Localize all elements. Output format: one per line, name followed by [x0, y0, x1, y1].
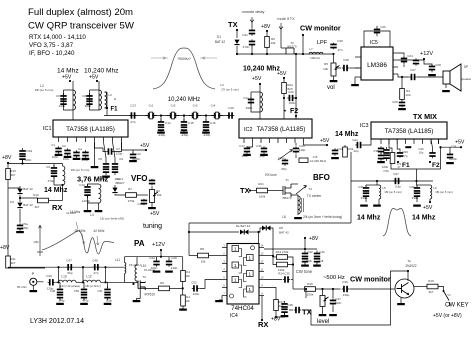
svg-text:BAT 42: BAT 42	[215, 40, 226, 44]
svg-text:14 Mhz: 14 Mhz	[57, 68, 79, 75]
wire feedback loop	[364, 31, 390, 47]
ground C32	[301, 265, 309, 267]
RX response plot axis	[37, 225, 43, 256]
junction rail	[304, 248, 306, 250]
svg-text:100k: 100k	[307, 293, 314, 297]
IC4 right pin 12	[259, 263, 264, 265]
TX bandpass response curve	[383, 208, 411, 236]
inductor L12	[83, 280, 100, 282]
svg-text:470n: 470n	[243, 45, 250, 49]
junction D2 D3	[19, 197, 21, 199]
wire C51 down	[107, 282, 109, 288]
svg-text:mute if TX: mute if TX	[277, 17, 295, 21]
svg-text:CW monitor: CW monitor	[350, 275, 391, 284]
wire varactor to R7	[115, 194, 126, 195]
node F2 right	[429, 161, 431, 163]
74HC04 inverter gates	[232, 246, 239, 252]
svg-text:C30: C30	[383, 169, 389, 173]
svg-text:C163: C163	[25, 149, 33, 153]
svg-text:TX: TX	[302, 308, 312, 317]
junction level	[321, 288, 323, 290]
svg-text:C1: C1	[51, 143, 55, 147]
svg-text:C50: C50	[74, 289, 80, 293]
wire rail 268	[8, 267, 45, 269]
svg-text:C1a: C1a	[243, 96, 249, 100]
wire tank gnd2	[98, 203, 100, 210]
resistor R16b 4k7	[427, 284, 438, 289]
unmute delay arrow	[250, 17, 254, 22]
svg-text:CW QRP transceiver 5W: CW QRP transceiver 5W	[28, 21, 135, 32]
op-amp IC1 TA7358 (LA1185)	[53, 120, 128, 137]
wire Ca1 to IC3	[363, 139, 371, 145]
svg-text:22p: 22p	[353, 149, 358, 153]
wire to R15	[273, 256, 277, 258]
wire L1 top	[62, 164, 64, 167]
svg-text:+5V: +5V	[140, 143, 150, 149]
svg-text:F1: F1	[402, 162, 410, 169]
capacitor C6a 220p	[60, 93, 66, 107]
svg-text:C24: C24	[407, 54, 413, 58]
node +5V IC1	[145, 149, 147, 151]
diode pair D5 BAT 42	[262, 226, 271, 231]
svg-text:vol: vol	[327, 85, 335, 91]
wire pin to C24	[398, 53, 404, 56]
IC4 left pin 3	[222, 263, 227, 265]
IC4 right pin 13	[259, 255, 264, 257]
svg-text:100n: 100n	[306, 259, 313, 263]
IC2 pin 2 stub	[252, 138, 254, 143]
IC4 right pin 14	[259, 247, 264, 249]
resistor R8	[198, 253, 209, 258]
svg-text:R7: R7	[128, 187, 132, 191]
capacitor C9a 470p	[51, 165, 57, 179]
capacitor C31 top	[249, 28, 255, 35]
svg-text:Cr1: Cr1	[149, 104, 154, 108]
node +5V IC3	[460, 146, 462, 148]
wire C16 down	[205, 116, 207, 122]
ground C8	[102, 176, 110, 178]
svg-text:D5: D5	[279, 226, 283, 230]
svg-text:470k: 470k	[128, 199, 135, 203]
IC3 pin 6 stub	[422, 139, 424, 144]
junction bp1	[376, 180, 378, 182]
svg-text:BaT 42: BaT 42	[23, 203, 33, 207]
capacitor C20 140p	[293, 146, 299, 153]
wire C34 top	[449, 147, 451, 152]
node +5V R2a	[283, 77, 285, 79]
crystal Cr2	[167, 112, 179, 119]
svg-text:TA7358 (LA1185): TA7358 (LA1185)	[385, 128, 434, 135]
junction collector	[407, 270, 409, 272]
ground C2	[64, 156, 72, 158]
wire pot top	[151, 186, 153, 190]
capacitor C3 100n	[73, 150, 79, 157]
svg-text:10k: 10k	[201, 260, 206, 264]
wire sidetone loop	[302, 271, 408, 325]
wire IC4 gnd	[219, 296, 222, 301]
junction R15 right	[292, 263, 294, 265]
ground C16	[202, 132, 210, 134]
wire C3c gnd	[365, 197, 367, 202]
svg-text:100n: 100n	[289, 101, 296, 105]
svg-text:18t (on 5 mm): 18t (on 5 mm)	[71, 168, 90, 172]
wire R13-R14	[182, 282, 184, 296]
svg-text:330p: 330p	[412, 196, 419, 200]
svg-text:LPF: LPF	[317, 40, 328, 46]
diode pair D4 BAT 42	[240, 230, 249, 235]
svg-text:Y1: Y1	[447, 293, 451, 297]
peak arrow	[76, 222, 78, 229]
wire box to bp rail	[416, 169, 418, 181]
junction audio in	[295, 53, 297, 55]
wire j	[7, 267, 9, 269]
svg-text:L8: L8	[282, 215, 286, 219]
op-amp IC5 LM386	[361, 47, 393, 80]
inductor L2 winding	[73, 90, 76, 110]
svg-text:28 MHz: 28 MHz	[75, 229, 86, 233]
wire R10 down	[7, 180, 9, 231]
junction route	[188, 231, 190, 233]
capacitor C7 220p	[106, 148, 113, 154]
capacitor C12 100n	[130, 152, 136, 159]
wire D2-D3	[19, 195, 21, 202]
ground vol	[330, 80, 338, 82]
capacitor C4e 1n8	[314, 251, 320, 265]
IC2 pin 4 stub	[269, 138, 271, 143]
IF passband response curve	[153, 48, 215, 89]
wire L10 top	[136, 257, 138, 265]
junction vol top	[332, 53, 334, 55]
wire +8V to R10	[7, 163, 9, 169]
wire C15 down	[183, 116, 185, 122]
svg-text:56p: 56p	[67, 271, 72, 275]
varactor CD1 BB227	[112, 188, 117, 194]
speaker SP	[443, 71, 450, 84]
IC4 right pin 9	[259, 287, 264, 289]
wire C50 down	[83, 282, 85, 288]
svg-text:TA7358 (LA1185): TA7358 (LA1185)	[257, 126, 306, 133]
node F1 right	[397, 161, 399, 163]
svg-text:2N2022: 2N2022	[405, 264, 416, 268]
svg-text:C2b: C2b	[288, 90, 294, 94]
capacitor C24 output	[401, 56, 407, 64]
svg-text:+5V: +5V	[150, 211, 160, 217]
resistor R6 10k	[265, 37, 270, 48]
capacitor C50 470p	[81, 287, 87, 301]
svg-text:L13: L13	[61, 275, 67, 279]
svg-text:14 Mhz: 14 Mhz	[70, 210, 81, 214]
svg-text:18t (on 5mm): 18t (on 5mm)	[85, 284, 101, 288]
node +5V T1b	[96, 80, 98, 82]
svg-text:RX: RX	[52, 203, 62, 212]
ground C38	[377, 161, 385, 163]
wire T1b top	[90, 89, 100, 91]
capacitor C48 148p	[57, 287, 63, 301]
wire R9 to gate	[138, 287, 159, 289]
svg-text:tuning: tuning	[143, 223, 162, 230]
capacitor C35b sidetone	[294, 307, 301, 313]
junction C31	[251, 53, 253, 55]
wire D3 to C5a	[19, 209, 21, 223]
wire CW monitor tap	[302, 35, 304, 54]
ground C1b	[260, 154, 268, 156]
svg-text:RTX 14,000 - 14,110: RTX 14,000 - 14,110	[29, 34, 86, 41]
junction +12V rail	[160, 256, 162, 258]
capacitor C46 140p	[166, 259, 172, 266]
resistor R4 100	[400, 89, 405, 100]
svg-text:2t: 2t	[114, 97, 117, 101]
op-amp IC2 TA7358 (LA1185)	[239, 119, 312, 138]
wire +5V to R2a	[283, 78, 285, 83]
capacitor C4d 100n	[153, 259, 159, 266]
capacitor C25 100n	[413, 58, 419, 65]
wire C4c top	[416, 185, 418, 187]
svg-text:14 Mhz: 14 Mhz	[357, 215, 381, 222]
svg-text:C6b: C6b	[82, 94, 88, 98]
svg-text:R5: R5	[324, 62, 328, 66]
inductor L8 BFO	[298, 196, 300, 214]
IC4 left pin 2	[222, 255, 227, 257]
junction C2b	[295, 97, 297, 99]
resistor R16 10k	[305, 287, 316, 292]
wire to C17	[247, 143, 253, 147]
capacitor Ca1 22p	[355, 142, 362, 148]
wire TX to R21	[250, 190, 257, 192]
svg-text:R8: R8	[200, 247, 204, 251]
wire +8V rail IC4	[264, 248, 317, 250]
wire C2b right	[294, 97, 296, 99]
wire R19	[344, 145, 346, 147]
node TX BFO	[249, 189, 251, 191]
svg-text:R14: R14	[278, 272, 284, 276]
wire route to +5V	[391, 147, 461, 169]
wire T2 gate	[281, 47, 286, 49]
wire +8V branch	[276, 313, 285, 317]
svg-text:27p: 27p	[402, 154, 407, 158]
ground level	[319, 314, 327, 316]
trimmer C21 RX tone	[278, 150, 293, 161]
wire rail to drain	[125, 282, 139, 284]
svg-text:IC5: IC5	[370, 40, 378, 46]
svg-text:C19: C19	[337, 147, 343, 151]
ground C51	[104, 303, 112, 305]
wire BFO route left down	[188, 223, 190, 256]
wire rail 164	[8, 163, 63, 165]
svg-text:L3: L3	[108, 93, 112, 97]
capacitor C38b	[378, 153, 384, 160]
svg-text:D3: D3	[10, 200, 14, 204]
wire to R12	[20, 198, 38, 201]
junction R6	[266, 53, 268, 55]
svg-text:+5V: +5V	[320, 138, 330, 144]
wire f3 down	[105, 267, 107, 282]
capacitor C11 tuning	[141, 199, 147, 205]
IC3 pin 2 stub	[388, 139, 390, 144]
svg-text:100n: 100n	[451, 157, 458, 161]
svg-text:T4: T4	[308, 187, 312, 191]
capacitor C16b	[227, 112, 234, 118]
connector P 50 ohm	[30, 278, 37, 285]
ground pin5	[91, 166, 99, 168]
svg-text:Speaker: Speaker	[461, 77, 471, 81]
node +8V IC4	[275, 316, 277, 318]
wire L6 down	[429, 199, 431, 202]
wire top rail filter	[8, 266, 125, 268]
svg-text:C1b: C1b	[256, 144, 262, 148]
capacitor C40 10p	[429, 151, 435, 158]
svg-text:680p: 680p	[85, 104, 92, 108]
capacitor C47 56p	[66, 264, 73, 270]
svg-text:27p: 27p	[130, 120, 135, 124]
wire T1 low	[291, 195, 298, 215]
IC2 pin 3 stub	[260, 138, 262, 143]
ground IC5	[351, 84, 359, 86]
svg-text:C38: C38	[287, 303, 293, 307]
wire left node	[273, 249, 277, 265]
svg-text:14 Mhz: 14 Mhz	[44, 187, 68, 194]
node +5V IC2	[326, 144, 328, 146]
svg-text:20t (on 3mm + ferite tuning): 20t (on 3mm + ferite tuning)	[303, 215, 342, 219]
wire C35 right	[291, 279, 293, 281]
svg-text:C11: C11	[137, 202, 143, 206]
wire D5 down to rail	[271, 228, 274, 249]
svg-text:C3b: C3b	[358, 185, 364, 189]
L8 core lines	[302, 198, 304, 212]
wire C20	[295, 143, 297, 146]
junction R2a C2b	[283, 97, 285, 99]
resistor R14	[181, 295, 186, 306]
IC4 left pin 7	[222, 295, 227, 297]
svg-text:10,240 MHz: 10,240 MHz	[168, 97, 200, 103]
junction R15 left	[272, 255, 274, 257]
IC1 pin 5 stub	[94, 137, 96, 142]
capacitor C6b 680p	[86, 93, 92, 107]
svg-text:TA7358 (LA1185): TA7358 (LA1185)	[66, 126, 115, 133]
ground C38	[281, 315, 289, 317]
svg-text:1n8: 1n8	[319, 259, 324, 263]
wire R9 right	[170, 287, 183, 289]
wire f1 down	[58, 267, 60, 282]
wire +8V tap	[304, 238, 306, 249]
wire +12V down	[160, 250, 162, 257]
capacitor C28 100u	[429, 64, 435, 72]
capacitor C38c 22p	[383, 147, 389, 161]
IC1 pin 8 stub	[121, 137, 123, 142]
node +5V T2a	[259, 83, 261, 85]
wire pin8 RX	[261, 296, 263, 321]
ground C28	[428, 74, 436, 76]
IC3 pin 3 stub	[396, 139, 398, 144]
IC5 right pin y53	[393, 52, 398, 54]
capacitor C2 100n	[64, 148, 70, 155]
svg-text:C38: C38	[373, 149, 379, 153]
ground speaker	[442, 90, 450, 92]
resistor R15b 130k	[277, 262, 288, 267]
wire sidetone left	[289, 309, 293, 311]
svg-text:T1: T1	[285, 178, 289, 182]
svg-text:27t (on 5 mm): 27t (on 5 mm)	[221, 88, 238, 92]
potentiometer R5 10k vol	[331, 63, 340, 76]
inductor L7 100mH	[309, 52, 323, 54]
wire to vol	[333, 54, 335, 63]
svg-text:+8V: +8V	[2, 155, 12, 161]
IC1 pin 7 stub	[112, 137, 114, 142]
wire T2a cap branch	[251, 92, 260, 112]
wire R14 gnd	[182, 306, 184, 309]
svg-text:C17: C17	[239, 144, 245, 148]
svg-text:(dB): (dB)	[34, 240, 39, 244]
capacitor C32 100n	[302, 251, 308, 265]
svg-text:330p: 330p	[361, 196, 368, 200]
svg-text:TX: TX	[228, 20, 238, 29]
capacitor C2b feedback	[374, 26, 380, 36]
svg-text:C48: C48	[50, 289, 56, 293]
IC2 pin 8 stub	[303, 138, 305, 143]
bar above F1	[405, 146, 411, 148]
capacitor C163 100n	[19, 148, 25, 162]
ground C5a	[16, 231, 24, 233]
svg-text:C30: C30	[337, 39, 343, 43]
junction R13 R14 gate	[182, 287, 184, 289]
wire C48 down	[59, 282, 61, 288]
capacitor C38 100n	[281, 301, 287, 315]
wire pin13 to node	[264, 255, 273, 257]
wire C12 top	[132, 150, 134, 153]
svg-text:PA: PA	[134, 239, 145, 248]
svg-text:Ca: Ca	[78, 147, 82, 151]
svg-text:10k: 10k	[271, 41, 276, 45]
IC4 right pin 11	[259, 271, 264, 273]
capacitor C15 240p	[181, 119, 187, 133]
transistor T3 IRF510	[138, 281, 145, 291]
svg-text:L3: L3	[220, 83, 224, 87]
wire R16 right	[316, 288, 341, 290]
IC5 right pin y67	[393, 66, 398, 68]
ground C3	[73, 158, 81, 160]
wire T1a cap branch	[64, 90, 74, 110]
wire C7 right	[114, 142, 122, 152]
wire tank gnd1	[87, 203, 89, 210]
wire R8 to IC4	[209, 255, 223, 257]
wire C47a top	[332, 289, 334, 298]
node F1	[106, 107, 108, 109]
500Hz bandwidth arrows	[151, 57, 217, 59]
svg-text:C6: C6	[56, 94, 60, 98]
IC2 pin 6 stub	[286, 138, 288, 143]
capacitor C35	[283, 276, 290, 282]
capacitor C37 5,6p	[393, 178, 400, 184]
wire mute to T2 gate	[280, 29, 282, 48]
junction bp2	[415, 180, 417, 182]
ground zobel	[398, 108, 406, 110]
wire res2 top	[416, 181, 419, 185]
svg-text:F1: F1	[111, 107, 119, 113]
svg-text:+5V: +5V	[62, 75, 72, 81]
resistor R9 gate	[159, 286, 170, 291]
svg-text:10k: 10k	[185, 299, 190, 303]
diode D3 BAT 42	[17, 203, 22, 209]
capacitor C14 240p	[158, 119, 164, 133]
svg-text:C4b: C4b	[409, 185, 415, 189]
IC3 pin 5 stub	[413, 139, 415, 144]
resistor R7 470k	[126, 193, 137, 198]
ground C12	[129, 160, 137, 162]
svg-text:BB227: BB227	[115, 181, 124, 185]
wire collector up	[407, 271, 409, 281]
capacitor C tuning top	[149, 179, 155, 185]
RX response curve with notches	[42, 231, 114, 254]
wire R21 to T1	[268, 190, 284, 192]
